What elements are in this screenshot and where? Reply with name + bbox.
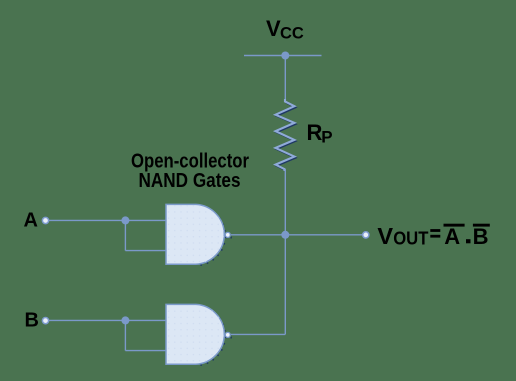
node output junction	[281, 231, 289, 239]
svg-text:A: A	[444, 224, 460, 249]
wire node to VOUT terminal	[285, 234, 362, 236]
svg-text:P: P	[321, 127, 332, 146]
svg-text:A: A	[24, 210, 38, 232]
overbar A	[444, 224, 465, 227]
svg-text:CC: CC	[280, 25, 304, 43]
NAND gate 2 output bubble shadow	[227, 334, 232, 339]
wire B split to gate2 input 2	[125, 350, 166, 352]
label RP	[307, 120, 333, 146]
svg-text:V: V	[377, 223, 393, 249]
resistor RP	[276, 99, 295, 171]
wire A split down	[124, 220, 126, 250]
NAND gate 1 output bubble	[225, 232, 230, 237]
dot separator	[466, 239, 471, 243]
svg-text:B: B	[25, 309, 39, 331]
wire A split to gate1 input 2	[125, 250, 166, 252]
NAND gate 2 shadow	[197, 306, 225, 366]
NAND gate 1 shadow	[197, 206, 225, 266]
equals sign	[430, 229, 440, 232]
svg-text:V: V	[266, 16, 281, 41]
node B split junction	[121, 316, 129, 324]
node A split junction	[121, 216, 129, 224]
wire VCC to resistor	[284, 56, 286, 102]
svg-text:B: B	[473, 224, 489, 249]
NAND gate 2 output bubble	[225, 332, 230, 337]
NAND gate 2 fill texture	[167, 305, 224, 363]
wire B to gate2 input 1	[49, 319, 167, 321]
overbar B	[473, 224, 490, 227]
NAND gate 1 fill texture	[167, 205, 224, 263]
node VCC junction dot	[281, 52, 289, 60]
wire resistor to output node and down to gate2 output	[284, 169, 286, 334]
NAND gate 1 output bubble shadow	[227, 234, 232, 239]
wire gate1 output to node	[231, 234, 285, 236]
resistor RP shadow	[277, 103, 296, 171]
svg-text:OUT: OUT	[393, 227, 429, 248]
wire B split down	[124, 320, 126, 350]
NAND gate 2 body	[166, 304, 224, 364]
terminal VOUT	[363, 232, 369, 238]
wire gate2 output to node	[231, 333, 285, 335]
wire A to gate1 input 1	[49, 219, 167, 221]
svg-text:R: R	[307, 120, 323, 145]
label Open-collector NAND Gates	[131, 151, 249, 193]
label VOUT = A . B	[377, 223, 488, 249]
terminal A	[42, 217, 48, 223]
terminal B	[42, 318, 48, 324]
NAND gate 1 body	[166, 204, 224, 264]
label VCC	[266, 16, 304, 43]
svg-text:NAND Gates: NAND Gates	[139, 170, 241, 192]
wire VCC top bar	[244, 55, 322, 57]
